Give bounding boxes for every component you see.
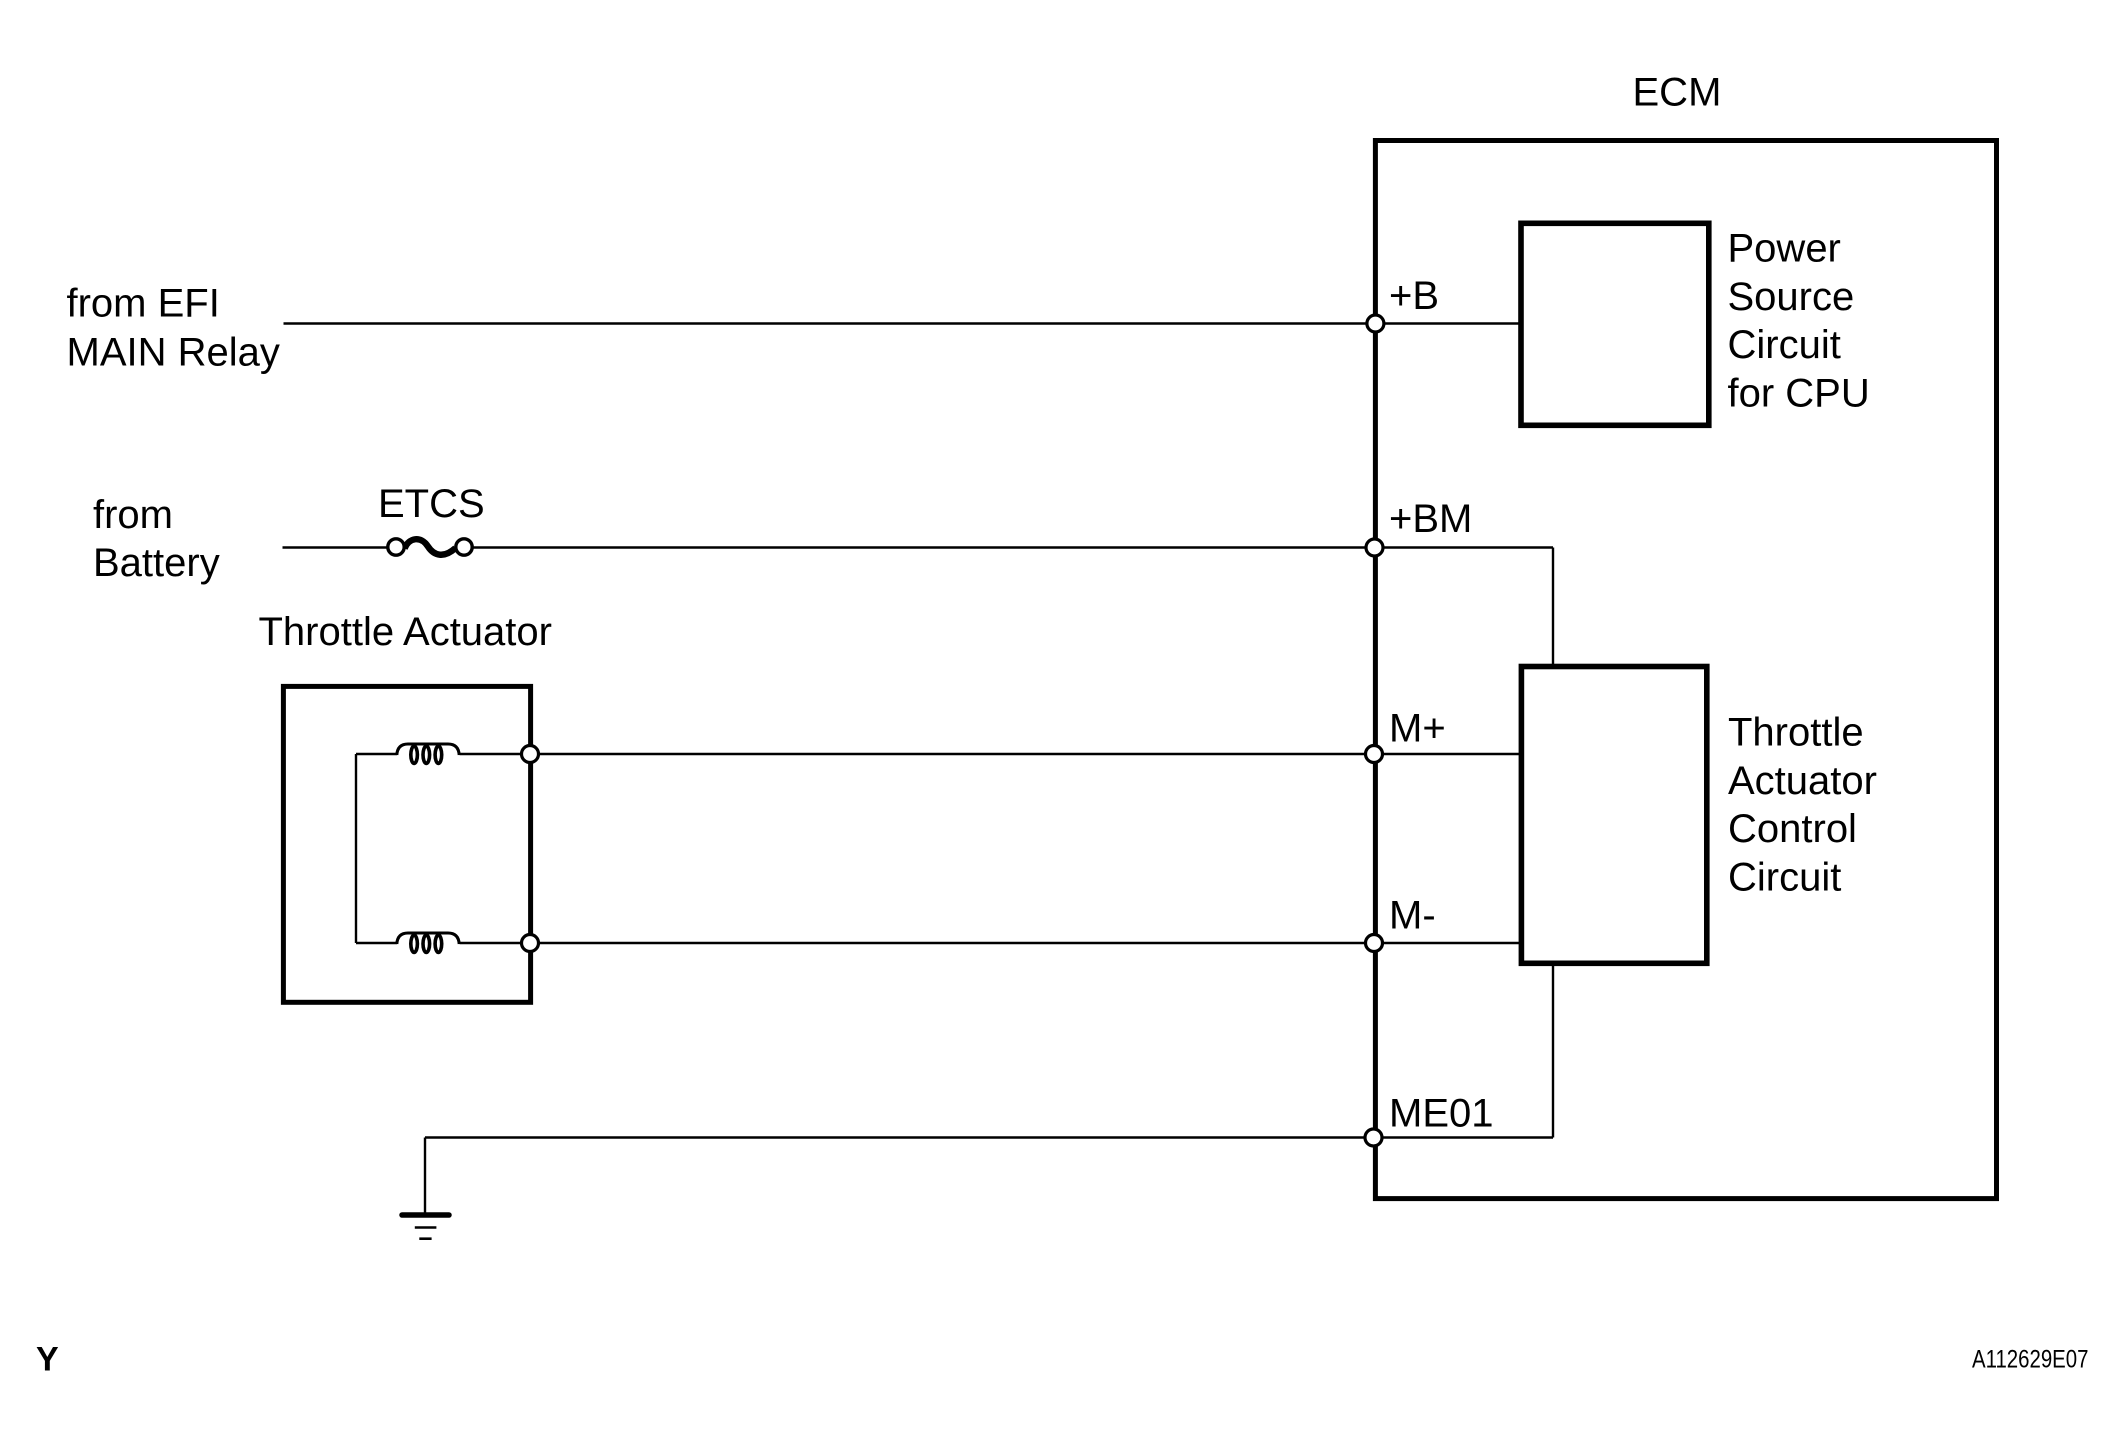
- wire from EFI MAIN Relay to +B node: [284, 322, 1376, 324]
- svg-text:Throttle: Throttle: [1728, 711, 1864, 755]
- node +B: [1367, 315, 1384, 332]
- wire fuse to +BM node: [472, 546, 1375, 548]
- node M+ (ECM): [1366, 746, 1383, 763]
- coil L2 (lower motor winding): [397, 933, 459, 952]
- node +BM: [1366, 539, 1383, 556]
- svg-text:for CPU: for CPU: [1728, 371, 1870, 415]
- wire inner loop bottom: [356, 942, 397, 944]
- wire throttle actuator M+ to ECM M+ node: [530, 753, 1375, 755]
- svg-text:Actuator: Actuator: [1728, 759, 1877, 803]
- svg-text:Control: Control: [1728, 807, 1857, 851]
- throttle actuator box: [283, 686, 530, 1002]
- svg-text:Circuit: Circuit: [1728, 855, 1841, 899]
- node ME01: [1365, 1129, 1382, 1146]
- wire ME01 node to riser: [1375, 1136, 1553, 1138]
- wire throttle actuator M- to ECM M- node: [530, 942, 1375, 944]
- svg-text:Y: Y: [36, 1341, 59, 1379]
- svg-text:Throttle Actuator: Throttle Actuator: [259, 610, 552, 654]
- wire ME01 node to ground: [425, 1136, 1375, 1138]
- svg-text:MAIN Relay: MAIN Relay: [67, 331, 280, 375]
- svg-text:Source: Source: [1728, 275, 1855, 319]
- wire coil L1 to M+ terminal circle: [460, 753, 531, 755]
- svg-text:ME01: ME01: [1389, 1092, 1494, 1136]
- wire ground riser: [424, 1138, 426, 1214]
- wire control circuit box bottom to ME01 riser: [1552, 963, 1554, 1137]
- ground symbol: [402, 1215, 449, 1239]
- svg-text:Battery: Battery: [93, 541, 220, 585]
- svg-text:from: from: [93, 493, 173, 537]
- wire +BM node to riser: [1375, 546, 1553, 548]
- throttle actuator control circuit box: [1521, 667, 1706, 964]
- inner loop left vertical wire: [355, 754, 357, 943]
- svg-text:A112629E07: A112629E07: [1972, 1346, 2089, 1374]
- svg-text:Circuit: Circuit: [1728, 323, 1841, 367]
- node M- (ECM): [1366, 935, 1383, 952]
- terminal circle M+ (actuator): [522, 746, 539, 763]
- wire M- node to control circuit box: [1375, 942, 1521, 944]
- wire +B node to Power Source box: [1375, 322, 1521, 324]
- svg-text:+B: +B: [1389, 274, 1439, 318]
- svg-text:from EFI: from EFI: [67, 282, 220, 326]
- fuse ETCS: [388, 539, 472, 555]
- wire from Battery to fuse: [283, 546, 390, 548]
- svg-text:Power: Power: [1728, 227, 1841, 271]
- svg-text:ETCS: ETCS: [378, 482, 485, 526]
- svg-text:M-: M-: [1389, 894, 1436, 938]
- ECM box: [1375, 141, 1996, 1199]
- coil L1 (upper motor winding): [397, 744, 459, 763]
- terminal circle M- (actuator): [522, 935, 539, 952]
- svg-text:M+: M+: [1389, 707, 1446, 751]
- wire M+ node to control circuit box: [1375, 753, 1521, 755]
- svg-text:ECM: ECM: [1633, 71, 1722, 115]
- power source circuit box: [1521, 223, 1709, 425]
- wire riser down to Throttle Actuator Control Circuit box top: [1552, 548, 1554, 667]
- wire coil L2 to M- terminal circle: [460, 942, 531, 944]
- svg-text:+BM: +BM: [1389, 497, 1472, 541]
- wire inner loop top: [356, 753, 397, 755]
